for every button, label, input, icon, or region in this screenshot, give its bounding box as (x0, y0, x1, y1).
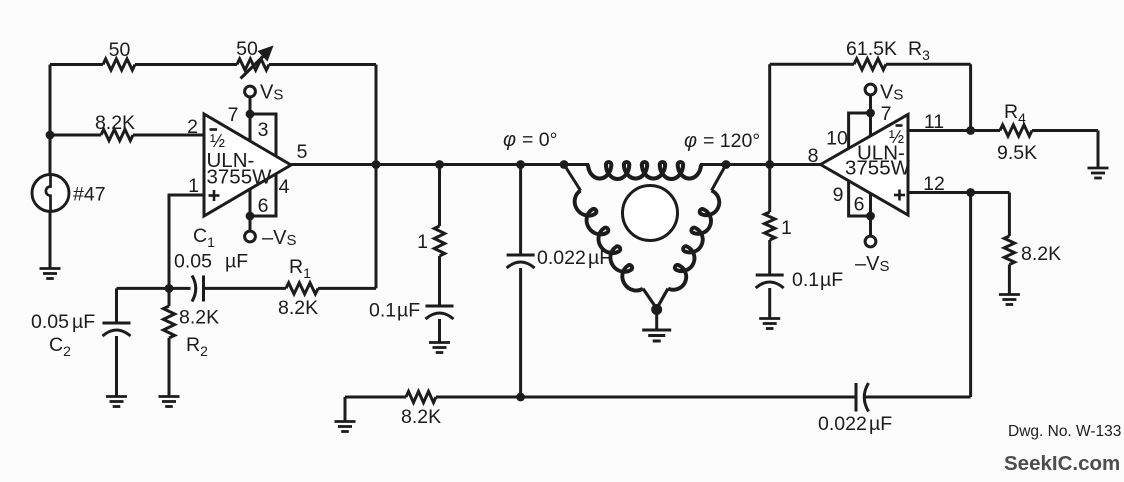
resistor 8.2K right (1004, 236, 1014, 265)
ground 0.1uF right (759, 319, 780, 329)
label 8.2K right (1021, 243, 1061, 265)
svg-text:0.05: 0.05 (174, 251, 212, 273)
wire pin11 to R4 (908, 129, 1000, 132)
svg-text:= 0°: = 0° (522, 129, 557, 151)
junction pin6 U2 (866, 212, 875, 221)
svg-text:#47: #47 (73, 184, 106, 206)
svg-text:φ: φ (684, 130, 697, 152)
op-amp U1 half label (210, 131, 225, 151)
pin 12 label (923, 173, 945, 195)
resistor 1 (mid) (434, 226, 444, 256)
resistor 8.2K bottom (406, 391, 436, 402)
wire C2 branch (117, 288, 191, 397)
label 0.022uF shunt (537, 247, 611, 269)
ground motor (642, 330, 671, 341)
wire output phi0 (290, 163, 589, 166)
terminal Vs2 (865, 84, 876, 95)
svg-text:Dwg. No. W-133: Dwg. No. W-133 (1008, 423, 1121, 440)
label R2 (186, 334, 208, 359)
wire top feedback run (50, 63, 376, 66)
label 50 fixed (109, 39, 131, 61)
svg-text:7: 7 (881, 103, 892, 125)
resistor R3 61.5K (854, 59, 886, 70)
svg-text:0.05: 0.05 (31, 311, 69, 333)
resistor 50 (fixed) (103, 59, 135, 70)
svg-text:8.2K: 8.2K (401, 406, 441, 428)
wire left rail upper (49, 65, 52, 176)
wire 8.2K right to ground (1008, 265, 1011, 296)
wire Vs2 stub (869, 95, 872, 114)
resistor 1 (right) (765, 212, 775, 240)
ground C2 (106, 397, 127, 407)
capacitor C2 0.05uF (103, 323, 131, 336)
motor winding top (588, 162, 701, 179)
pin 5 label (297, 141, 308, 163)
motor winding left (570, 189, 646, 295)
wire -Vs1 stub (249, 216, 252, 231)
resistor 50 (variable) with arrow (237, 46, 274, 79)
pin 6 label U2 (854, 194, 865, 216)
svg-text:9: 9 (833, 184, 844, 206)
lamp #47 (32, 175, 69, 212)
label drawing number (1008, 423, 1121, 440)
svg-text:4: 4 (279, 176, 290, 198)
wire bottom middle segment (436, 396, 856, 399)
label 8.2K R1 (278, 297, 318, 319)
terminal -Vs2 (865, 236, 876, 247)
pin 11 label (924, 111, 944, 133)
op-amp U2 name (845, 142, 911, 180)
svg-text:0.1: 0.1 (369, 300, 396, 322)
svg-text:8.2K: 8.2K (1021, 243, 1061, 265)
op-amp U1 pin box (250, 114, 276, 216)
svg-text:µF: µF (72, 311, 95, 333)
wire phi120 to op-amp (700, 163, 821, 166)
pin 9 label (833, 184, 844, 206)
motor winding right stub (712, 165, 727, 191)
svg-text:SeekIC.com: SeekIC.com (1004, 452, 1120, 475)
ground lamp (40, 269, 61, 279)
label Vs2 (880, 82, 903, 104)
op-amp U1 triangle (204, 114, 291, 216)
svg-text:= 120°: = 120° (703, 130, 760, 152)
wire pin12 run (908, 193, 1009, 237)
svg-text:µF: µF (820, 269, 843, 291)
motor winding left stub (564, 165, 581, 191)
motor winding right (666, 190, 724, 294)
svg-text:6: 6 (854, 194, 865, 216)
pin 7 label U2 (881, 103, 892, 125)
label 8.2K input (95, 112, 135, 134)
wire feedback vertical to output node (375, 65, 378, 289)
label 50 variable (236, 38, 258, 60)
wire motor neutral to ground (655, 309, 658, 331)
svg-text:3755W: 3755W (845, 157, 911, 180)
svg-text:1: 1 (417, 231, 428, 253)
watermark SeekIC.com (1004, 452, 1120, 475)
wire right RC branch (768, 165, 771, 320)
label Vs1 (260, 82, 283, 104)
wire R4 to ground (1032, 131, 1098, 169)
pin 3 label (258, 119, 269, 141)
op-amp U2 pin box (849, 113, 871, 216)
label 8.2K R2 (179, 307, 219, 329)
junction pin6 U1 (246, 212, 255, 221)
node feedback-output (372, 160, 381, 169)
pin 1 label (188, 175, 199, 197)
svg-text:5: 5 (297, 141, 308, 163)
label -Vs1 (262, 227, 296, 249)
pin 10 label (826, 128, 848, 150)
svg-text:7: 7 (228, 104, 239, 126)
node input junction (46, 131, 55, 140)
op-amp U1 name (207, 149, 273, 189)
label 9.5K (997, 142, 1037, 164)
wire inverting input (50, 134, 205, 137)
wire pin1 non-inverting (169, 195, 204, 288)
pin 6 label (258, 195, 269, 217)
motor winding right bottom stub (657, 289, 668, 309)
svg-text:½: ½ (210, 131, 225, 151)
wire bottom right segment (864, 396, 971, 399)
svg-text:6: 6 (258, 195, 269, 217)
capacitor 0.1uF mid (426, 306, 454, 319)
node pin12 junction (966, 188, 975, 197)
resistor R1 8.2K (286, 283, 318, 294)
wire pin12 down (969, 193, 972, 398)
capacitor 0.022uF shunt (507, 255, 535, 268)
label R1 (289, 256, 311, 281)
capacitor C1 0.05uF (series) (192, 276, 204, 302)
svg-text:11: 11 (924, 111, 944, 133)
ground bottom left (335, 422, 356, 432)
label 0.022uF bottom (818, 413, 892, 435)
svg-text:50: 50 (236, 38, 258, 60)
label #47 (73, 184, 106, 206)
ground R2 (159, 397, 180, 407)
svg-text:61.5K: 61.5K (846, 38, 897, 60)
label 0.1uF right (792, 269, 843, 291)
ground R4 (1088, 168, 1109, 178)
svg-text:1: 1 (781, 217, 792, 239)
node motor neutral (651, 304, 662, 315)
wire 1-ohm mid branch (438, 165, 441, 344)
label C1 (193, 225, 215, 250)
label 1 mid (417, 231, 428, 253)
svg-text:0.022: 0.022 (818, 413, 867, 435)
resistor 8.2K input (101, 129, 133, 140)
pin 7 label (228, 104, 239, 126)
svg-text:2: 2 (187, 116, 198, 138)
wire R3 feedback (770, 64, 971, 164)
svg-text:8.2K: 8.2K (278, 297, 318, 319)
motor winding left bottom stub (643, 289, 657, 309)
svg-text:0.1: 0.1 (792, 269, 819, 291)
svg-text:9.5K: 9.5K (997, 142, 1037, 164)
resistor R4 9.5K (1000, 125, 1032, 136)
svg-text:12: 12 (923, 173, 945, 195)
label C2 (49, 334, 71, 359)
svg-text:8.2K: 8.2K (179, 307, 219, 329)
wire C1 to R1 (204, 287, 287, 290)
junction pin7 U2 (866, 109, 875, 118)
node 1-ohm branch (435, 160, 444, 169)
label -Vs2 (855, 253, 889, 275)
ground 8.2K right (999, 295, 1020, 305)
label 1 right (781, 217, 792, 239)
pin 2 label (187, 116, 198, 138)
wire left rail lower to ground (49, 211, 52, 269)
svg-text:8.2K: 8.2K (95, 112, 135, 134)
svg-text:10: 10 (826, 128, 848, 150)
svg-text:1: 1 (188, 175, 199, 197)
pin 8 label (808, 145, 819, 167)
op-amp U1 minus sign (210, 128, 218, 131)
ground 0.1uF mid (429, 343, 450, 353)
label phi 0 (503, 129, 557, 151)
svg-text:φ: φ (503, 129, 516, 151)
motor rotor (623, 186, 678, 241)
terminal -Vs1 (245, 231, 256, 242)
label 0.05uF C2 (31, 311, 95, 333)
svg-text:3755W: 3755W (207, 166, 273, 189)
label phi 120 (684, 130, 760, 152)
label 61.5K R3 (846, 38, 930, 63)
capacitor 0.022uF series bottom (856, 383, 869, 412)
op-amp U2 minus sign (896, 124, 903, 127)
node bottom junction (516, 393, 525, 402)
svg-text:µF: µF (397, 300, 420, 322)
node motor right (722, 160, 731, 169)
svg-text:3: 3 (258, 119, 269, 141)
wire R2 branch (168, 288, 171, 397)
junction pin7 U1 (246, 110, 255, 119)
label 0.1uF mid (369, 300, 420, 322)
op-amp U2 triangle (821, 115, 909, 216)
node pin11 junction (966, 126, 975, 135)
capacitor 0.1uF right (756, 275, 784, 288)
op-amp U2 half label (889, 127, 904, 147)
label R4 (1004, 101, 1026, 126)
label 0.05 C1 (174, 251, 248, 273)
wire bottom left segment (345, 397, 406, 422)
node C1-R2 junction (165, 284, 174, 293)
node 0.022 branch (516, 160, 525, 169)
svg-text:µF: µF (588, 247, 611, 269)
wire Vs1 stub (249, 97, 252, 114)
pin 4 label (279, 176, 290, 198)
svg-text:8: 8 (808, 145, 819, 167)
terminal Vs1 (245, 86, 256, 97)
node motor left (560, 160, 569, 169)
svg-text:50: 50 (109, 39, 131, 61)
op-amp U1 plus sign (209, 190, 220, 201)
op-amp U2 plus sign (894, 190, 905, 201)
wire -Vs2 stub (869, 216, 872, 236)
wire R1 to feedback vertical (318, 287, 376, 290)
node R3 branch (765, 160, 774, 169)
wire 0.022uF branch (519, 165, 522, 398)
label 8.2K bottom (401, 406, 441, 428)
svg-text:0.022: 0.022 (537, 247, 586, 269)
svg-text:µF: µF (225, 251, 248, 273)
resistor R2 8.2K (163, 306, 174, 338)
svg-text:µF: µF (869, 413, 892, 435)
